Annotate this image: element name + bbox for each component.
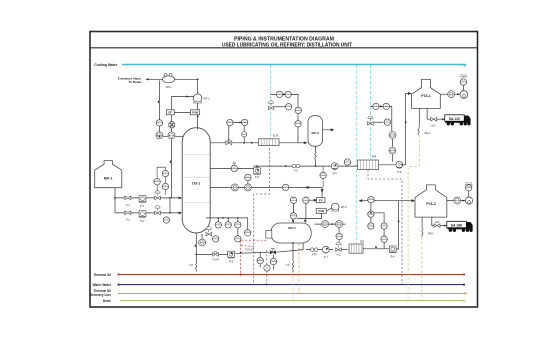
thermal oil line: [118, 274, 465, 276]
pipe pump line P-2: [115, 212, 181, 214]
break symbol MX-2 drain: [286, 261, 294, 269]
svg-text:TCV-8: TCV-8: [212, 260, 219, 262]
svg-text:SA 166: SA 166: [451, 224, 462, 228]
pipe EF down through instruments: [171, 115, 173, 198]
instrument D1: [276, 91, 282, 97]
svg-text:C4: C4: [372, 154, 376, 158]
svg-text:Cooling Water: Cooling Water: [94, 63, 118, 67]
svg-text:Drain: Drain: [103, 299, 111, 303]
warm water line: [118, 284, 465, 286]
svg-text:To Boiler: To Boiler: [128, 80, 142, 84]
valve MX-2 outlet: [311, 248, 318, 256]
pipe MX-2 bottom drain: [292, 243, 294, 273]
instrument B3: [231, 184, 238, 191]
instrument H8: [199, 239, 206, 246]
svg-text:P-8: P-8: [229, 261, 234, 264]
pump I3: [264, 265, 270, 271]
red signal dashed to MX-2: [238, 239, 267, 241]
instrument J1: [290, 197, 296, 203]
box EF-1: [166, 110, 174, 115]
instrument M4: [381, 223, 387, 229]
svg-text:EF: EF: [319, 199, 323, 203]
pipe C-5 to P-6: [363, 248, 389, 250]
svg-text:VP-2: VP-2: [341, 205, 347, 209]
control valve I4: [270, 249, 276, 255]
instrument H1: [215, 222, 221, 228]
valve three-way on overhead line: [226, 140, 232, 145]
instrument D5: [295, 107, 301, 113]
instrument F1: [389, 132, 396, 139]
svg-text:VP-1: VP-1: [204, 96, 211, 100]
exchanger C-3: [259, 133, 280, 145]
title block separator: [90, 47, 478, 49]
red signal dashed stub: [241, 246, 254, 247]
pipe cooling cluster 1: [271, 94, 299, 142]
pipe PTA-2 right outlet: [447, 200, 465, 202]
pipe column to C-3: [210, 142, 258, 144]
pipe PTA-1 instrument stem: [462, 85, 464, 90]
svg-text:DR-1: DR-1: [425, 132, 431, 135]
pipe valve to bubble cluster2: [374, 121, 384, 123]
pipe EF riser: [171, 97, 173, 110]
pipe EF to PUM: [174, 112, 190, 114]
pipe PTA-1 bottom left: [418, 109, 420, 127]
pipe overhead left vertical: [159, 81, 183, 137]
box PUM-1: [191, 110, 200, 115]
pipe column mid right nozzle: [210, 186, 323, 197]
instrument A3: [156, 132, 163, 139]
valve V-1: [125, 196, 131, 207]
svg-text:P-3: P-3: [255, 176, 260, 179]
svg-text:P-2: P-2: [141, 220, 146, 223]
svg-text:V-11: V-11: [336, 254, 341, 256]
instrument C2: [242, 119, 248, 125]
svg-text:C-3: C-3: [273, 133, 278, 137]
instrument G3: [460, 75, 468, 86]
pipe VD-1 to VP-1: [175, 79, 198, 94]
instrument H5: [235, 236, 241, 242]
column DU-1: [182, 128, 210, 233]
pipe entrained vapor to boiler: [146, 78, 163, 80]
instrument O1: [162, 170, 168, 176]
control valve E3: [368, 116, 374, 125]
pipe PTA-1 bottom right to truck: [427, 109, 445, 120]
drain dashed from PTA-2: [421, 237, 423, 300]
pump P-3: [254, 168, 261, 179]
pipe PTA-2 feed: [360, 200, 415, 202]
svg-text:V-1: V-1: [126, 204, 130, 207]
pipe C-4 to P-5: [379, 164, 397, 166]
pipe column top right nozzle: [229, 123, 244, 143]
instrument J2: [303, 197, 309, 203]
pipe feed to column: [169, 198, 171, 213]
instrument B4: [244, 184, 251, 191]
tank PTA-2: [415, 185, 447, 217]
pipe PUM2 drop: [297, 213, 322, 218]
svg-text:V-10: V-10: [312, 254, 317, 256]
valve with bubble B1: [231, 162, 237, 172]
instrument feed line: [163, 217, 169, 223]
pipe PTA-2 bottom right to truck: [432, 217, 447, 226]
svg-text:PTA-1: PTA-1: [421, 94, 431, 98]
instrument D6: [295, 121, 301, 127]
svg-text:VD-1: VD-1: [166, 85, 173, 89]
pipe bottoms reboil branch: [196, 250, 303, 255]
pump P-1: [139, 196, 146, 209]
cooling water dashed branch 1: [270, 65, 272, 139]
svg-text:P-7: P-7: [324, 256, 328, 259]
pipe MX-3 bottom drop: [314, 146, 316, 166]
pipe MX-2 right instruments: [315, 223, 346, 225]
pump VP-1: [193, 94, 210, 103]
pump P-8: [228, 251, 235, 263]
svg-text:Thermal Oil: Thermal Oil: [93, 273, 111, 277]
control valve C-5 inlet: [336, 242, 342, 256]
box PUM-2: [316, 208, 326, 213]
pipe bottom instrument link: [260, 252, 273, 269]
instrument M5: [381, 236, 387, 242]
exchanger C-4: [358, 154, 379, 169]
pipe MX-2 outlet to C-5: [303, 243, 347, 250]
warm water dashed signal left: [254, 148, 270, 284]
pump P-6: [389, 246, 396, 258]
instrument H6: [213, 236, 219, 242]
control valve CV-1: [155, 191, 161, 200]
pipe MX-2 stems: [294, 204, 306, 223]
thermal oil recovery line: [118, 293, 466, 295]
instrument K2: [336, 221, 343, 228]
vessel MX-3: [308, 116, 323, 147]
instrument K1: [322, 221, 329, 228]
pipe PTA-1 right outlet: [440, 93, 460, 95]
svg-text:PUM: PUM: [192, 111, 198, 115]
tank PTA-1: [412, 79, 441, 108]
pipe reflux horizontal to pump: [172, 96, 194, 98]
instrument A2: [169, 122, 175, 128]
box EF-2: [317, 198, 326, 203]
instrument I1: [257, 257, 263, 263]
control valve CV-2: [155, 206, 161, 215]
instrument O3: [154, 179, 160, 185]
drain dashed from PTA-1: [408, 135, 419, 300]
drawing border frame: [90, 32, 478, 308]
pipe valve to bubble cluster1: [274, 106, 286, 108]
svg-text:P-5: P-5: [397, 171, 402, 174]
svg-text:MX-2: MX-2: [288, 226, 296, 230]
instrument under main run: [320, 166, 326, 187]
pipe bubble stem B2: [247, 181, 249, 184]
blower N2: [465, 197, 472, 204]
instrument I2: [270, 258, 276, 264]
instrument B5: [282, 184, 288, 190]
pump P-7: [322, 246, 329, 259]
svg-text:DR-3: DR-3: [428, 232, 434, 235]
valve H7: [206, 227, 212, 236]
instrument G1: [448, 91, 455, 98]
flow arrows: [157, 93, 465, 248]
svg-text:TCV-10: TCV-10: [245, 247, 254, 251]
svg-text:V-2: V-2: [126, 219, 130, 222]
hose break PTA-1 drain: [418, 127, 431, 135]
pipe PTA-2 bottom left: [421, 217, 423, 228]
red signal dashed vertical: [240, 240, 242, 273]
instrument H3: [235, 222, 241, 228]
pump P-4: [331, 163, 338, 176]
svg-text:P-1: P-1: [141, 205, 146, 208]
instrument A4: [168, 132, 175, 139]
pipe column bottoms: [195, 233, 197, 272]
instrument D4: [285, 104, 291, 110]
instrument D2: [285, 91, 291, 97]
pipe C-3 to MX-3: [279, 142, 307, 144]
truck SA 120: [445, 115, 471, 126]
instrument M2: [368, 211, 374, 217]
warm water dashed signal mid: [266, 250, 268, 284]
instrument main run: [344, 159, 350, 165]
instrument N3: [465, 182, 473, 191]
instrument J3: [290, 213, 296, 219]
pipe P-5 riser to PTA-1: [403, 93, 411, 165]
truck SA 166: [447, 221, 473, 232]
pump VP-2: [331, 203, 347, 211]
svg-text:MX-1: MX-1: [104, 176, 113, 180]
vessel MX-1: [95, 161, 122, 188]
instrument E4: [384, 119, 390, 125]
pump P-5: [396, 161, 403, 174]
pipe cooling cluster 2: [370, 106, 392, 161]
control valve D3: [268, 101, 274, 110]
pipe bubble row bottom: [206, 218, 248, 230]
pipe PTA-2 instrument stem: [468, 191, 470, 197]
svg-text:SA 120: SA 120: [449, 117, 460, 121]
instrument C1: [227, 119, 233, 125]
instrument A1: [156, 120, 162, 126]
cooling water dashed branch 3: [369, 65, 371, 160]
pipe C-5 instrument column: [371, 203, 384, 236]
pipe bubble to EF2: [309, 199, 316, 201]
pipe VP-1 to column top: [197, 103, 199, 130]
condenser VD-1: [163, 73, 175, 89]
blower G2: [460, 91, 468, 99]
hose break PTA-2 drain: [422, 229, 434, 237]
svg-text:P-4: P-4: [333, 172, 338, 175]
instrument F2: [389, 147, 396, 154]
svg-text:P-6: P-6: [391, 255, 396, 258]
svg-text:DU-1: DU-1: [192, 182, 200, 186]
exchanger C-5: [349, 240, 364, 254]
svg-text:LV-6: LV-6: [435, 222, 440, 224]
pipe pump line P-1: [115, 197, 181, 199]
control valve H9: [212, 251, 219, 261]
pump P-2: [139, 211, 146, 224]
instrument B2: [245, 174, 251, 180]
instrument C3: [242, 132, 247, 137]
pipe bubble stem H5: [237, 229, 239, 236]
pipe O cluster stems: [157, 167, 165, 194]
pipe P-6 riser to PTA-2: [396, 201, 398, 249]
svg-text:RUBBER: RUBBER: [460, 77, 468, 79]
pipe main run to C-4: [210, 166, 357, 168]
cooling water header line: [122, 64, 465, 66]
drain line: [120, 300, 465, 302]
instrument E2: [383, 103, 389, 109]
instrument M3: [368, 223, 374, 229]
valve main run: [292, 164, 299, 172]
arrow entrained vapor: [146, 78, 149, 80]
warm water dashed signal from C-4: [368, 170, 402, 285]
svg-text:USED LUBRICATING OIL REFINERY:: USED LUBRICATING OIL REFINERY: DISTILLAT…: [222, 42, 352, 48]
vessel MX-2: [271, 223, 311, 243]
svg-text:MX-3: MX-3: [311, 131, 319, 135]
svg-text:Recovery Line: Recovery Line: [89, 293, 111, 297]
svg-text:C5: C5: [360, 240, 364, 244]
instrument K3: [336, 233, 342, 239]
pipe K3 stem: [338, 228, 340, 245]
svg-text:RUBBER: RUBBER: [465, 185, 473, 187]
drain dashed from MX-2: [298, 244, 300, 294]
pipe PUM2 to VP-2: [327, 208, 332, 211]
svg-text:PUM: PUM: [318, 209, 324, 213]
svg-text:PTA-2: PTA-2: [426, 202, 436, 206]
instrument E1: [373, 103, 379, 109]
break symbol MX-3 drain: [315, 152, 316, 160]
valve bottoms: [189, 261, 197, 269]
valve LV-3: [431, 117, 437, 127]
cooling water dashed branch 2: [355, 65, 357, 244]
instrument H4: [245, 230, 251, 236]
drain dashed below MX-2 squiggle: [292, 271, 294, 301]
svg-text:LV-3: LV-3: [431, 125, 436, 128]
instrument H2: [225, 222, 231, 228]
valve LV-6: [434, 222, 440, 228]
pipe MX-1 outlet tee: [114, 188, 116, 213]
pipe bubble stem H8: [201, 234, 203, 239]
blower N1: [454, 197, 461, 204]
pipe P-6 bubble drop: [383, 242, 385, 249]
pipe MX-3 outlet arrow: [323, 129, 334, 131]
valve V-2: [125, 211, 131, 222]
instrument M1: [368, 196, 374, 202]
svg-text:EF: EF: [168, 111, 172, 115]
svg-text:Warm Water: Warm Water: [93, 283, 112, 287]
instrument O4: [162, 183, 168, 189]
